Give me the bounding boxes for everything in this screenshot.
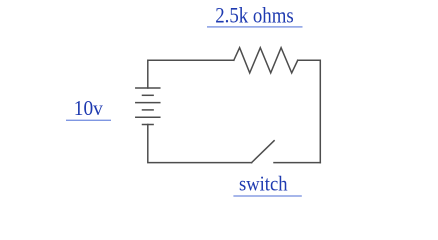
switch S1 blade: [252, 141, 275, 163]
resistor R1: [234, 48, 298, 73]
wire bottom-left from switch: [148, 125, 252, 163]
underline for 2.5k ohms: [207, 26, 303, 27]
svg-text:2.5k ohms: 2.5k ohms: [215, 4, 294, 28]
underline for 10v: [66, 120, 111, 121]
svg-text:10v: 10v: [74, 96, 103, 120]
wire top-right and right edge: [298, 60, 321, 162]
underline for switch: [233, 195, 301, 196]
svg-text:switch: switch: [239, 172, 288, 196]
battery B1 plates: [136, 88, 160, 125]
wire top-left horizontal: [148, 60, 234, 88]
wire bottom-right to switch: [274, 162, 320, 164]
